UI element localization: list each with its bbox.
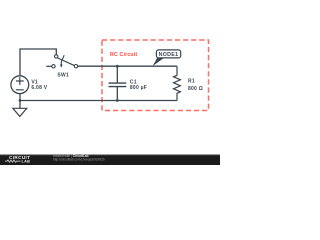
svg-text:SW1: SW1 [57, 72, 69, 78]
svg-text:800 µF: 800 µF [130, 85, 147, 91]
ground [13, 101, 27, 117]
node junction dot C1 top [116, 65, 119, 68]
svg-text:RC Circuit: RC Circuit [110, 52, 137, 58]
resistor R1 [174, 66, 181, 100]
svg-text:LAB: LAB [22, 160, 31, 164]
footer text [53, 154, 105, 162]
wire: V1 bottom to bottom rail [19, 94, 21, 101]
wire: bottom rail [20, 100, 177, 102]
voltage source V1 [11, 76, 29, 94]
RC Circuit label [110, 52, 137, 58]
V1 value labels [31, 79, 47, 91]
svg-text:NODE1: NODE1 [159, 52, 179, 58]
capacitor C1 [109, 66, 127, 100]
wire top-left: V1 top up and across to SW1 [20, 49, 56, 76]
node junction dot at V1 bottom rail [19, 99, 22, 102]
svg-text:6.08 V: 6.08 V [31, 85, 47, 91]
svg-text:http://circuitlab.com/c/xwqa3r: http://circuitlab.com/c/xwqa3r9z992b [53, 158, 105, 162]
switch SW1 [46, 55, 78, 68]
svg-text:800 Ω: 800 Ω [188, 86, 203, 92]
SW1 label [57, 72, 69, 78]
footer watermark bar [0, 155, 220, 166]
node NODE1 callout [153, 50, 181, 66]
R1 value labels [188, 79, 203, 92]
svg-text:R1: R1 [188, 79, 195, 85]
RC Circuit region dashed box [102, 40, 209, 111]
CircuitLab logo [5, 155, 30, 163]
wire: SW1 right terminal to R1 branch top [78, 65, 177, 67]
node junction dot C1 bottom [116, 99, 119, 102]
C1 value labels [130, 79, 147, 91]
